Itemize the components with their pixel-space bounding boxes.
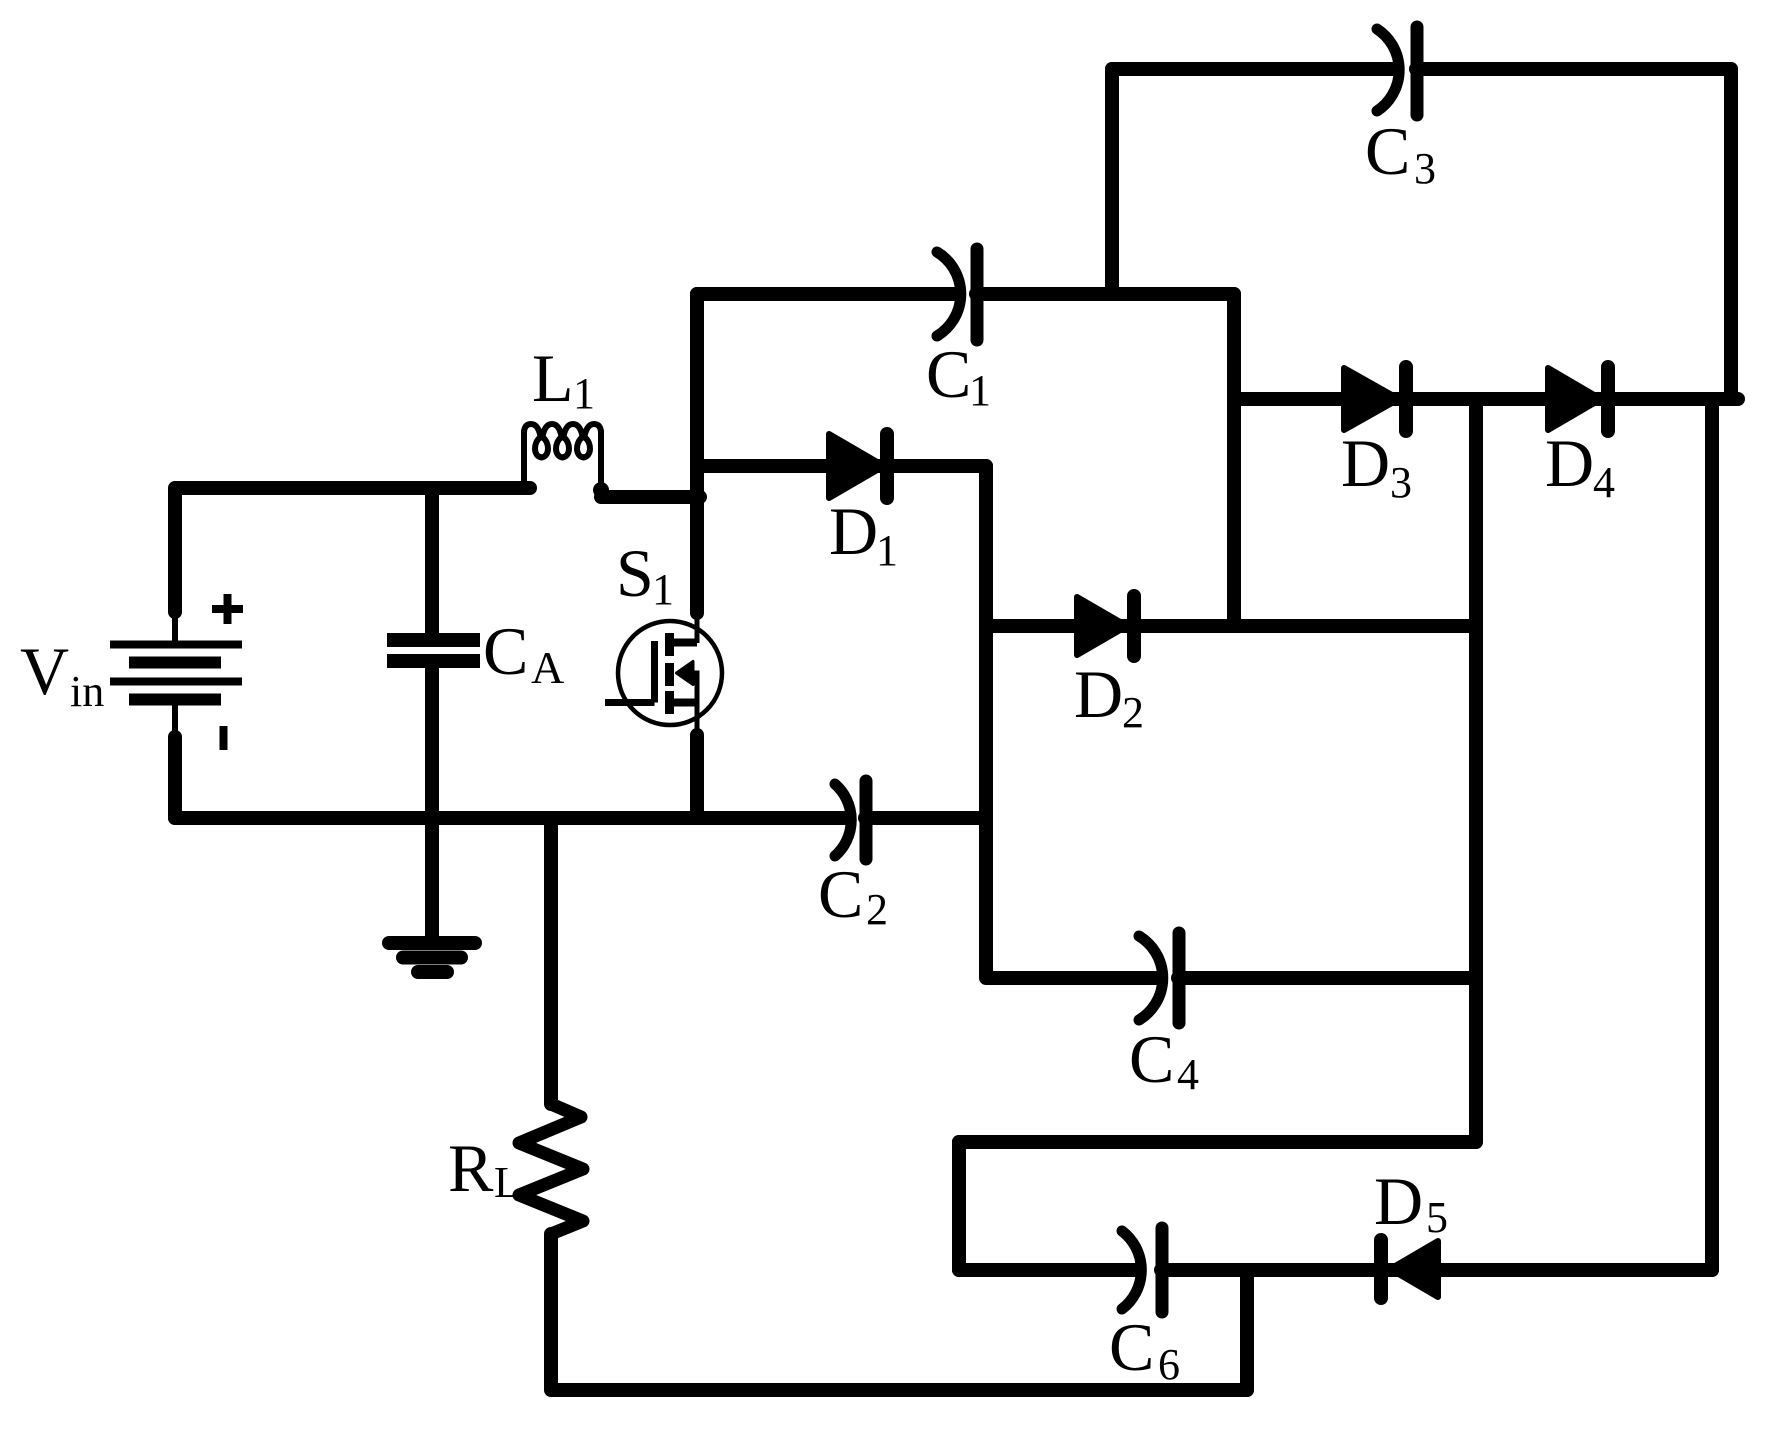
svg-text:C: C <box>483 613 528 689</box>
battery Vin <box>110 612 242 737</box>
svg-text:D: D <box>1374 1163 1423 1239</box>
wire C1 top <box>697 287 1234 301</box>
node junction CA top <box>425 488 439 634</box>
svg-text:C: C <box>1129 1021 1174 1097</box>
svg-text:D: D <box>1341 425 1390 501</box>
svg-text:C: C <box>818 856 863 932</box>
capacitor C4 <box>1139 933 1179 1023</box>
label C3 <box>1365 113 1436 193</box>
wire right vertical x1712 <box>1705 399 1719 1270</box>
wire C6 junction vertical <box>1240 1270 1254 1390</box>
capacitor C6 <box>1122 1228 1162 1312</box>
svg-text:3: 3 <box>1414 144 1436 193</box>
wire left vertical of C6 run <box>952 1142 966 1270</box>
label RL <box>448 1130 521 1207</box>
svg-text:5: 5 <box>1426 1193 1448 1242</box>
svg-text:1: 1 <box>876 526 898 575</box>
wire D1 branch <box>697 459 986 473</box>
label C1 <box>926 336 991 415</box>
svg-text:1: 1 <box>652 565 674 614</box>
node L1 right lead dot <box>593 482 609 498</box>
svg-text:2: 2 <box>1122 688 1144 737</box>
wire mid vertical x1476 <box>1469 399 1483 1142</box>
svg-text:C: C <box>926 336 971 412</box>
capacitor CA <box>387 640 480 661</box>
capacitor C2 <box>835 781 866 859</box>
wire RL bottom to output bottom <box>551 1234 1247 1390</box>
svg-text:S: S <box>616 535 654 611</box>
wire CA down to ground <box>425 667 439 936</box>
label L1 <box>532 340 595 418</box>
diode D3 <box>1344 367 1406 431</box>
resistor RL <box>519 1104 583 1234</box>
svg-text:R: R <box>448 1130 494 1206</box>
label D2 <box>1074 656 1144 737</box>
wire MOSFET source down <box>690 735 704 818</box>
MOSFET S1 <box>605 610 722 737</box>
svg-text:L: L <box>532 340 574 416</box>
wire top-left from battery + to L1 left lead <box>175 488 530 612</box>
wire D2 branch <box>986 619 1476 633</box>
label S1 <box>616 535 674 614</box>
wire C3 top <box>1112 62 1731 76</box>
capacitor C3 <box>1377 27 1417 115</box>
svg-text:6: 6 <box>1158 1340 1180 1389</box>
svg-text:A: A <box>531 642 564 693</box>
battery minus tick <box>220 726 228 750</box>
svg-text:1: 1 <box>969 366 991 415</box>
label D3 <box>1341 425 1412 507</box>
wire RL branch down <box>544 818 558 1104</box>
svg-text:D: D <box>1074 656 1123 732</box>
wire D3 D4 run <box>1234 392 1738 406</box>
label Vin <box>20 633 104 716</box>
svg-text:C: C <box>1365 113 1410 189</box>
svg-text:4: 4 <box>1177 1050 1199 1099</box>
svg-text:2: 2 <box>866 885 888 934</box>
battery plus sign <box>212 594 243 624</box>
label D1 <box>829 493 898 575</box>
MOSFET body arrow <box>677 662 694 685</box>
svg-text:C: C <box>1109 1309 1154 1385</box>
label C4 <box>1129 1021 1199 1099</box>
svg-text:4: 4 <box>1593 458 1615 507</box>
wire C1 right vertical <box>1227 294 1241 626</box>
wire C3 left vertical <box>1105 69 1119 294</box>
label C2 <box>818 856 888 934</box>
diode D5 pointing left <box>1381 1240 1438 1298</box>
svg-text:D: D <box>1545 425 1594 501</box>
wire C6/D5 run <box>959 1263 1712 1277</box>
svg-text:in: in <box>70 667 104 716</box>
diode D4 <box>1548 367 1608 431</box>
wire mid horizontal y1142 <box>959 1135 1476 1149</box>
inductor L1 <box>524 424 601 492</box>
wire battery bottom lead <box>168 737 182 818</box>
svg-text:D: D <box>829 493 878 569</box>
label D4 <box>1545 425 1615 507</box>
label D5 <box>1374 1163 1448 1242</box>
label CA <box>483 613 564 693</box>
svg-text:L: L <box>494 1158 521 1207</box>
diode D2 <box>1077 596 1134 656</box>
diode D1 <box>829 434 887 498</box>
wire D1 corner down to C4 corner <box>986 466 1476 978</box>
svg-text:V: V <box>20 633 69 709</box>
svg-text:1: 1 <box>573 369 595 418</box>
wire C2 bottom run battery to mid vertical <box>175 811 986 825</box>
label C6 <box>1109 1309 1180 1389</box>
wire L1 to drain vertical <box>601 490 700 504</box>
wire C3 right vertical <box>1724 69 1738 399</box>
capacitor C1 <box>937 249 977 340</box>
wire drain vertical / C1 left vertical <box>690 294 704 613</box>
svg-text:3: 3 <box>1390 458 1412 507</box>
ground <box>389 943 475 972</box>
